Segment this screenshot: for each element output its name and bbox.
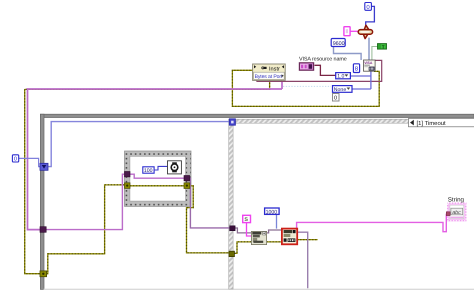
constant: numeric 9600 [331,39,345,47]
tunnel: event structure error (olive) [229,251,234,256]
while loop border (outer gray loop) [40,114,474,290]
svg-text:VISA resource name: VISA resource name [299,57,347,63]
wire numeric: 100 to wait icon [154,166,167,170]
svg-text:VISA: VISA [364,61,373,65]
wire error: inner loop right tunnel to event structure tunnel [187,186,230,253]
constant: numeric 0 (top, blue) [365,3,372,12]
svg-text:T: T [382,44,385,49]
VI icon: VISA Write [251,231,266,244]
VI icon: VISA Read [282,229,297,245]
wire string: pink constant to star [350,30,358,32]
constant: numeric 1000 [265,208,280,215]
wire numeric: top 0 constant to star [366,6,375,25]
svg-text:100: 100 [144,168,153,174]
svg-text:9600: 9600 [333,41,345,47]
wire string: S3 constant to VISA Write [247,223,252,236]
wire VISA resource: VISA Read out downward [297,232,308,288]
wire string: VISA Read to String indicator [297,214,447,232]
svg-text:Instr: Instr [269,66,280,72]
icon: 4-point star VI (dark red) [358,25,372,38]
svg-text:1000: 1000 [266,209,278,215]
terminal: String indicator input [446,212,450,216]
tunnel: inner loop VISA right [184,176,190,181]
wire error: inside while loop up to inner loop tunnel [47,185,125,274]
svg-text:0: 0 [334,96,337,102]
icon: Wait (ms) [168,161,182,174]
event structure selector label "[1] Timeout" [409,118,474,126]
wire error: inside event structure to VISA Write error in [234,242,251,254]
wire VISA resource: inside event structure to VISA Write [235,228,251,233]
constant: boolean True (green T) [378,44,387,50]
tunnel: while loop error (olive) [40,271,47,277]
indicator: String (pink bordered abc) [448,203,466,221]
tunnel: event structure numeric (blue) [229,119,235,125]
wire VISA resource: property node junction down and left edge into while tunnel [28,81,283,229]
svg-text:None: None [334,87,347,93]
control: VISA resource name (I/O box) [299,63,313,70]
wire numeric: left 0 constant to shift register [19,158,40,166]
wire numeric: shift register into event structure [48,122,229,167]
svg-text:Bytes at Port: Bytes at Port [255,74,283,80]
tunnel: while loop VISA (dark purple) [40,227,46,233]
wire numeric: 1.0 ring and None ring to VI [350,71,371,89]
event structure border [229,119,474,289]
constant: numeric 0 (left, shift register init) [12,155,18,163]
constant: numeric 100 (inner loop) [143,167,154,174]
wire VISA resource: VI top-right around to property node reference [257,60,382,81]
wire: star down to VISA configure VI [368,38,370,60]
tunnel: event structure VISA (dark purple) [230,226,235,231]
ring constant: None [333,86,353,93]
wire dotted light blue [283,85,331,87]
wire error: through inner loop [130,185,185,187]
svg-text:1.0: 1.0 [337,74,344,80]
wire VISA resource: through inner loop [130,174,184,178]
tunnel: inner loop error right [184,183,190,189]
svg-text:[1] Timeout: [1] Timeout [417,120,447,127]
label: VISA resource name [299,57,347,63]
wire error: left vertical down into while loop tunnel [25,89,41,273]
property node: Instr / Bytes at Port [253,64,286,80]
svg-text:S: S [244,217,248,223]
constant: numeric 0 (gray) [333,94,340,102]
label: String [448,197,465,204]
wire VISA resource: inner loop right tunnel down to event tunnel [190,178,230,228]
constant: numeric 8 (data bits) [353,64,359,73]
wire error: VISA write to read, and read error out [267,240,318,242]
inner while loop (dashed border) [125,151,192,206]
svg-text:0: 0 [14,157,17,163]
wire numeric: 1000 to VISA Read [276,214,278,228]
VI icon: VISA Configure Serial Port [364,60,376,71]
constant: string S3 [243,215,251,223]
ring constant: 1.0 [336,73,351,80]
wire boolean: T constant to VI [372,47,378,61]
wire numeric: 9600 to VI [334,47,362,61]
tunnel: while loop shift register (blue, arrow) [40,163,48,170]
wire VISA resource: VISA Write to VISA Read [267,230,282,233]
tunnel: inner loop error left [125,183,131,189]
wire VISA resource: inside while loop to inner loop left tunnel [46,174,124,229]
wire VISA resource: control to serial-config area [315,65,336,75]
svg-text:abc: abc [452,210,461,216]
constant: string (pink, near star) [344,27,350,36]
wire error: VISA configure error-out loop to property node [232,70,379,106]
tunnel: inner loop VISA left [125,172,131,177]
wire error: property node error-out down and left [25,80,270,90]
